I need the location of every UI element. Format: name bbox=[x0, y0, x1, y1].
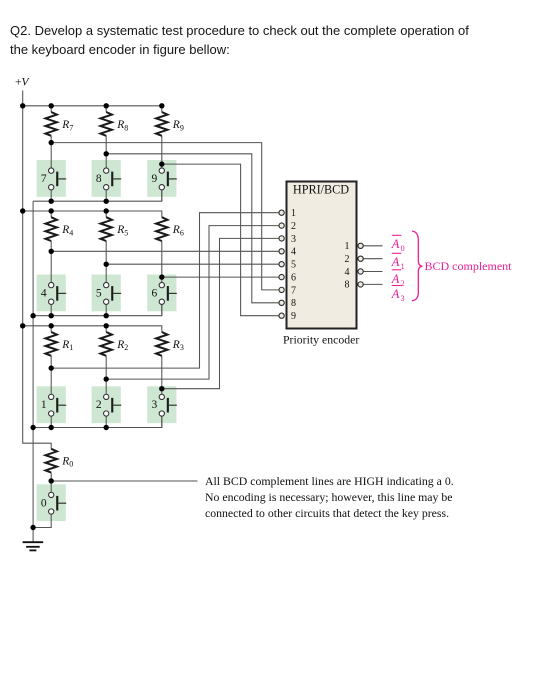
svg-text:5: 5 bbox=[291, 260, 296, 271]
svg-text:0: 0 bbox=[401, 244, 405, 253]
svg-text:4: 4 bbox=[345, 267, 350, 278]
svg-text:2: 2 bbox=[291, 221, 296, 232]
svg-text:4: 4 bbox=[291, 247, 296, 258]
svg-text:2: 2 bbox=[401, 279, 405, 288]
svg-text:R0: R0 bbox=[61, 455, 73, 468]
svg-text:A: A bbox=[391, 237, 400, 251]
svg-text:Priority encoder: Priority encoder bbox=[283, 333, 359, 347]
svg-text:2: 2 bbox=[345, 254, 350, 265]
svg-text:R8: R8 bbox=[116, 119, 128, 132]
svg-text:+V: +V bbox=[15, 77, 31, 89]
svg-text:3: 3 bbox=[401, 294, 405, 303]
svg-text:HPRI/BCD: HPRI/BCD bbox=[293, 183, 349, 197]
svg-text:7: 7 bbox=[291, 285, 296, 296]
svg-text:9: 9 bbox=[291, 311, 296, 322]
svg-text:A: A bbox=[391, 287, 400, 301]
svg-text:2: 2 bbox=[96, 399, 102, 411]
svg-text:R7: R7 bbox=[61, 119, 73, 132]
svg-text:1: 1 bbox=[41, 399, 47, 411]
svg-text:4: 4 bbox=[41, 287, 47, 299]
svg-text:R1: R1 bbox=[61, 339, 73, 352]
svg-text:A: A bbox=[391, 272, 400, 286]
svg-text:R9: R9 bbox=[172, 119, 184, 132]
svg-text:1: 1 bbox=[345, 241, 350, 252]
svg-text:BCD complement: BCD complement bbox=[425, 259, 513, 273]
svg-text:8: 8 bbox=[96, 173, 102, 185]
svg-text:6: 6 bbox=[291, 273, 296, 284]
svg-text:R6: R6 bbox=[172, 224, 184, 237]
svg-text:R4: R4 bbox=[61, 224, 73, 237]
svg-text:A: A bbox=[391, 255, 400, 269]
svg-text:0: 0 bbox=[41, 498, 47, 510]
svg-text:9: 9 bbox=[151, 173, 157, 185]
svg-text:7: 7 bbox=[41, 173, 47, 185]
svg-text:R5: R5 bbox=[116, 224, 128, 237]
svg-text:3: 3 bbox=[151, 399, 157, 411]
svg-text:3: 3 bbox=[291, 234, 296, 245]
svg-text:6: 6 bbox=[151, 287, 157, 299]
svg-text:1: 1 bbox=[291, 208, 296, 219]
svg-text:8: 8 bbox=[345, 280, 350, 291]
svg-text:8: 8 bbox=[291, 298, 296, 309]
svg-text:R2: R2 bbox=[116, 339, 128, 352]
svg-text:5: 5 bbox=[96, 287, 102, 299]
svg-text:R3: R3 bbox=[172, 339, 184, 352]
